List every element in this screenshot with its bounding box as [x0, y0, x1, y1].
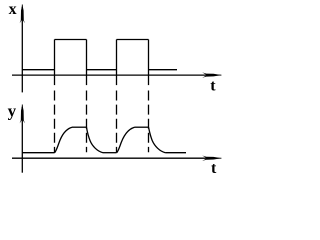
response baseline segment 2 [103, 152, 117, 154]
arrowhead right on top x-axis [202, 72, 222, 77]
square wave low-level segment 1 [22, 69, 54, 71]
arrow tip stem bottom y-axis [21, 105, 23, 121]
dashed guide line at pulse 2 rising edge [116, 91, 118, 153]
dashed guide line at pulse 1 falling edge [86, 91, 88, 153]
y-axis of bottom plot [21, 107, 23, 173]
square wave top of pulse 1 [55, 39, 87, 41]
arrow tip stem top y-axis [21, 5, 23, 21]
dashed guide line at pulse 1 rising edge [54, 91, 56, 153]
square wave low-level segment 2 [87, 69, 117, 71]
response baseline segment 3 [165, 152, 186, 154]
dashed guide line at pulse 2 falling edge [148, 91, 150, 153]
svg-text:t: t [210, 78, 216, 95]
x-axis of top plot (t axis) [12, 74, 207, 76]
response flat top 1 [72, 126, 87, 128]
response baseline segment 1 [22, 152, 54, 154]
svg-text:y: y [8, 102, 17, 121]
response exponential decay 2 [149, 127, 166, 152]
response exponential rise 2 [117, 127, 135, 153]
arrow tip stem bottom x-axis [206, 157, 221, 159]
square wave rising edge pulse 1 [54, 40, 56, 86]
square wave falling edge pulse 2 [148, 40, 150, 86]
arrowhead up on bottom y-axis [20, 104, 25, 123]
response exponential rise 1 [55, 127, 73, 153]
response flat top 2 [135, 126, 149, 128]
x-axis of bottom plot (t axis) [12, 157, 207, 159]
arrowhead right on bottom x-axis [202, 156, 222, 161]
square wave top of pulse 2 [117, 39, 149, 41]
svg-text:x: x [9, 1, 17, 18]
svg-text:t: t [211, 160, 217, 177]
square wave rising edge pulse 2 [116, 40, 118, 86]
square wave falling edge pulse 1 [86, 40, 88, 86]
y-axis of top plot [21, 7, 23, 92]
response exponential decay 1 [87, 127, 104, 152]
arrow tip stem top x-axis [206, 74, 221, 76]
square wave low-level segment 3 [149, 69, 178, 71]
arrowhead up on top y-axis [20, 4, 25, 23]
